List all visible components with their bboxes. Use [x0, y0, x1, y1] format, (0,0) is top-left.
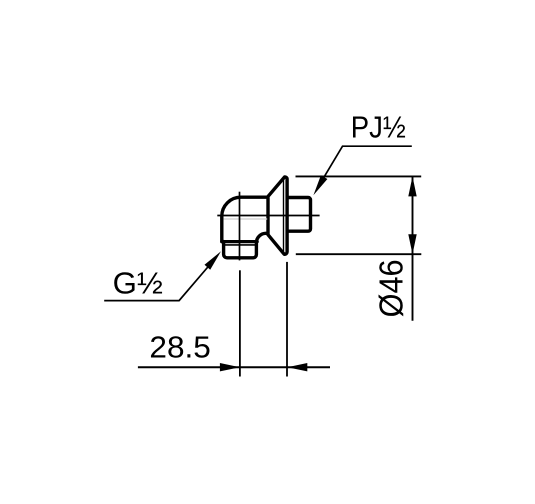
dim 28.5 right arrowhead [287, 363, 307, 371]
vertical centerline [239, 192, 241, 261]
G1/2 arrowhead [205, 251, 222, 269]
G1/2 leader line [104, 261, 213, 301]
dim 28.5 dimension line [138, 366, 330, 368]
dia 46 bottom extension line [296, 253, 422, 255]
PJ1/2 arrowhead [313, 175, 327, 195]
svg-text:28.5: 28.5 [149, 330, 211, 364]
dia 46 dimension line [412, 176, 414, 320]
svg-text:PJ½: PJ½ [351, 111, 406, 145]
dim 28.5 left arrowhead [220, 363, 240, 371]
rim inner thin line [283, 179, 285, 252]
faint pipe bottom tangent line [224, 218, 268, 220]
G1/2 threaded outlet: fillet + thread section sides/bottom [224, 233, 267, 258]
svg-text:G½: G½ [113, 267, 163, 301]
thread section top step line [222, 240, 257, 243]
nipple (PJ1/2 thread) [287, 198, 310, 232]
dia 46 top extension line [296, 175, 422, 177]
thread thin line [224, 244, 257, 246]
svg-text:Ø46: Ø46 [372, 259, 409, 317]
dim 28.5 right extension line [286, 262, 288, 377]
dia 46 top arrowhead [408, 176, 416, 196]
horizontal centerline [217, 215, 319, 217]
elbow body outline with top edge, upper cone slant, rim, lower slant, neck [222, 177, 287, 254]
dim 28.5 left extension line [239, 270, 241, 376]
PJ1/2 leader line [320, 146, 412, 184]
dia 46 bottom arrowhead [408, 234, 416, 254]
